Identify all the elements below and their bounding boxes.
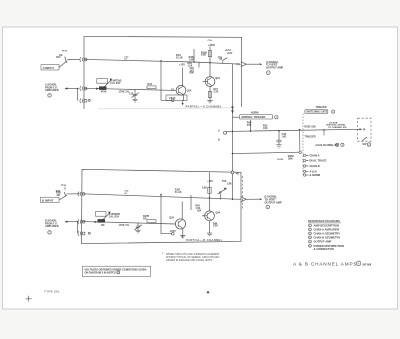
- svg-text:REFERENCE DIAGRAMS: REFERENCE DIAGRAMS: [308, 219, 340, 223]
- svg-text:170K 1%: 170K 1%: [119, 224, 130, 227]
- svg-text:DIFFER IN EARLIER AND LATER UN: DIFFER IN EARLIER AND LATER UNITS.: [166, 259, 213, 262]
- svg-text:+12V: +12V: [227, 52, 233, 55]
- svg-text:C84A: C84A: [169, 97, 176, 100]
- svg-text:3.9K: 3.9K: [189, 58, 194, 61]
- svg-text:TRIGGER: TRIGGER: [305, 135, 316, 138]
- svg-text:1M: 1M: [101, 224, 105, 227]
- svg-text:TO CHANNEL SW: TO CHANNEL SW: [328, 126, 347, 129]
- svg-text:AMPLIFIER: AMPLIFIER: [45, 225, 59, 228]
- svg-text:AMP DESCRIPTION: AMP DESCRIPTION: [314, 223, 339, 227]
- svg-text:A & B CHANNEL AMPS: A & B CHANNEL AMPS: [293, 262, 357, 267]
- svg-text:8.2K: 8.2K: [201, 54, 206, 57]
- svg-text:CAL R34: CAL R34: [109, 215, 120, 218]
- svg-text:R16: R16: [148, 83, 153, 86]
- svg-text:+12V: +12V: [179, 64, 185, 67]
- svg-text:Q24: Q24: [215, 77, 220, 80]
- svg-text:R10: R10: [56, 57, 61, 59]
- svg-text:SWITCHING GATE: SWITCHING GATE: [306, 111, 328, 114]
- svg-text:PARTIAL—B CHANNEL: PARTIAL—B CHANNEL: [186, 238, 223, 242]
- svg-text:+12V: +12V: [207, 180, 213, 183]
- svg-text:A: A: [218, 129, 220, 132]
- svg-text:R86: R86: [190, 73, 195, 75]
- svg-text:C8 R8: C8 R8: [277, 159, 284, 161]
- svg-text:51.1K: 51.1K: [176, 57, 183, 60]
- svg-text:1M: 1M: [143, 217, 146, 220]
- svg-text:OUTPUT AMP: OUTPUT AMP: [314, 240, 332, 244]
- svg-text:TP12: TP12: [62, 51, 68, 53]
- svg-text:3.3K: 3.3K: [213, 226, 218, 228]
- svg-text:A INPUT: A INPUT: [43, 66, 55, 70]
- svg-text:TP32: TP32: [61, 185, 67, 187]
- svg-text:1M: 1M: [59, 54, 62, 57]
- svg-text:TYPE 561: TYPE 561: [44, 290, 60, 294]
- svg-text:& CONNECTOR: & CONNECTOR: [314, 247, 334, 251]
- svg-text:ON DIAGRAM 2 IN NOTES: ON DIAGRAM 2 IN NOTES: [85, 271, 116, 274]
- svg-text:+GATE CHANNEL SW: +GATE CHANNEL SW: [315, 144, 339, 147]
- svg-text:B: B: [218, 138, 220, 141]
- svg-text:51.1K: 51.1K: [175, 191, 182, 194]
- svg-text:+300V: +300V: [208, 44, 215, 47]
- svg-text:& NORM: & NORM: [310, 173, 321, 177]
- svg-text:CHAN B GEOMETRY: CHAN B GEOMETRY: [314, 235, 341, 239]
- svg-text:OUTPUT AMP: OUTPUT AMP: [266, 66, 283, 70]
- svg-text:B INPUT: B INPUT: [42, 198, 54, 202]
- svg-text:10K: 10K: [263, 127, 268, 130]
- svg-text:-100V: -100V: [169, 230, 176, 233]
- svg-text:TP1: TP1: [218, 57, 223, 60]
- svg-text:47K: 47K: [247, 124, 252, 127]
- svg-text:CHAN B: CHAN B: [310, 164, 320, 168]
- svg-text:470K: 470K: [101, 90, 107, 93]
- svg-text:PARTIAL—A CHANNEL: PARTIAL—A CHANNEL: [186, 104, 223, 108]
- svg-text:DUAL TRACE: DUAL TRACE: [310, 159, 327, 163]
- svg-text:1M: 1M: [56, 194, 59, 197]
- svg-text:SW: SW: [363, 143, 368, 146]
- svg-text:4B: 4B: [236, 173, 239, 176]
- svg-text:C64: C64: [197, 209, 202, 212]
- svg-text:Q44: Q44: [216, 212, 221, 215]
- svg-text:C1A: C1A: [208, 39, 213, 42]
- svg-text:R300 10K: R300 10K: [305, 126, 317, 129]
- svg-text:CAL R14: CAL R14: [110, 82, 121, 85]
- svg-text:CHAN A GEOMETRY: CHAN A GEOMETRY: [314, 231, 341, 235]
- svg-text:3.3K: 3.3K: [214, 92, 219, 94]
- svg-text:TRIGGER: TRIGGER: [316, 106, 327, 109]
- svg-text:A & B: A & B: [310, 169, 317, 173]
- svg-text:AMPLIFIER: AMPLIFIER: [45, 89, 59, 92]
- svg-text:NORM: NORM: [251, 112, 258, 115]
- svg-text:NORMAL TRIGGER: NORMAL TRIGGER: [242, 115, 266, 119]
- svg-text:CHAN A AMPLIFIER: CHAN A AMPLIFIER: [314, 227, 340, 231]
- svg-text:OUTPUT AMP: OUTPUT AMP: [265, 200, 282, 204]
- svg-text:567 808: 567 808: [363, 263, 372, 266]
- svg-text:C16: C16: [129, 93, 134, 96]
- svg-text:Q34: Q34: [169, 217, 174, 220]
- svg-text:1.8K: 1.8K: [227, 182, 232, 185]
- svg-text:39K: 39K: [288, 157, 293, 160]
- svg-text:6.8K: 6.8K: [202, 188, 207, 190]
- svg-text:Q14: Q14: [187, 89, 192, 92]
- svg-text:CHAN A: CHAN A: [310, 153, 320, 157]
- svg-text:.001: .001: [282, 136, 287, 139]
